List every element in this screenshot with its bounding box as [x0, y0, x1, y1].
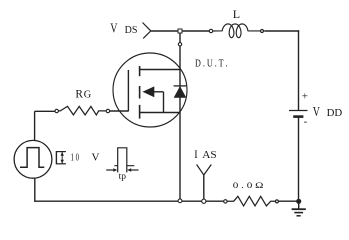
node drain terminal circle	[178, 43, 181, 46]
label V DD	[313, 104, 342, 119]
gate bar	[127, 70, 129, 111]
svg-text:V: V	[92, 153, 100, 164]
ground	[292, 201, 306, 216]
svg-text:G: G	[84, 90, 92, 101]
resistor R_sense	[224, 196, 279, 206]
node ground junction	[297, 199, 301, 203]
svg-text:+: +	[302, 91, 308, 103]
resistor RG	[55, 106, 110, 115]
drain line	[140, 69, 180, 71]
channel segment top	[139, 66, 141, 76]
wire bottom left	[35, 200, 224, 202]
body diode	[174, 85, 187, 87]
label V DS	[110, 20, 137, 36]
svg-text:D . U . T .: D . U . T .	[195, 58, 228, 70]
probe I_AS	[197, 165, 212, 204]
svg-text:1 0: 1 0	[71, 152, 79, 163]
svg-text:tp: tp	[119, 172, 127, 182]
wire top right	[264, 30, 299, 32]
waveform tp	[106, 148, 138, 173]
wire generator bottom	[34, 178, 36, 202]
wire right lower	[298, 117, 300, 202]
node drain junction (square)	[178, 29, 182, 33]
wire top left	[151, 30, 210, 32]
MOSFET D.U.T.	[110, 53, 187, 127]
svg-text:V: V	[313, 104, 320, 119]
svg-text:0 . 0 Ω: 0 . 0 Ω	[233, 180, 264, 190]
probe V_DS	[143, 23, 151, 39]
gate lead	[110, 110, 129, 112]
wire bottom right	[279, 200, 299, 202]
node source terminal circle	[178, 199, 182, 203]
source line	[140, 112, 180, 114]
pulse generator	[14, 140, 52, 178]
svg-text:DD: DD	[327, 108, 343, 119]
svg-text:DS: DS	[125, 25, 138, 36]
wire gate left	[35, 110, 55, 112]
svg-text:L: L	[233, 7, 240, 21]
svg-text:AS: AS	[202, 150, 216, 161]
wire right upper	[298, 30, 300, 110]
wire drain vertical	[179, 33, 181, 201]
mosfet body circle	[113, 53, 187, 127]
channel segment bottom	[139, 105, 141, 119]
svg-text:R: R	[75, 89, 83, 101]
battery V_DD	[289, 111, 308, 117]
body arrow	[143, 87, 154, 97]
wire generator top	[34, 111, 36, 140]
label I AS	[194, 147, 216, 161]
channel segment middle	[139, 86, 141, 99]
svg-text:V: V	[110, 20, 117, 35]
amplitude marker 10V	[56, 151, 66, 164]
inductor L	[209, 24, 263, 38]
label RG	[75, 89, 91, 101]
label 10 V	[71, 152, 100, 163]
svg-text:I: I	[194, 147, 197, 161]
svg-text:-: -	[304, 116, 308, 128]
